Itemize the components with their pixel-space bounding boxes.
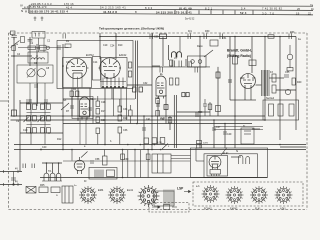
wire h y85 <box>127 84 152 86</box>
tube V2 EAF42 envelope <box>99 58 122 78</box>
wire h y99 mid <box>63 98 96 100</box>
svg-text:LSP: LSP <box>177 187 184 191</box>
junction dot left <box>13 184 15 186</box>
svg-text:7 41 30 81 82: 7 41 30 81 82 <box>262 7 283 11</box>
wire bottom long rail <box>40 177 267 179</box>
svg-text:5,4: 5,4 <box>241 7 246 11</box>
wire v x186 <box>185 59 187 66</box>
svg-text:Ratio: Ratio <box>197 45 203 48</box>
wire v loop risers <box>45 163 47 174</box>
output transformer hatch <box>163 190 165 206</box>
resistor C35 <box>129 110 133 116</box>
svg-text:4V: 4V <box>15 181 18 184</box>
svg-text:EAF42: EAF42 <box>230 208 238 211</box>
svg-text:R10: R10 <box>118 44 123 47</box>
hatched choke <box>94 170 96 178</box>
svg-text:8,2 1: 8,2 1 <box>205 6 213 10</box>
volume assembly box <box>89 168 117 180</box>
left edge tick <box>0 100 9 102</box>
svg-text:170 16: 170 16 <box>64 2 74 6</box>
svg-text:220V: 220V <box>203 143 209 145</box>
svg-text:FR5: FR5 <box>40 184 45 187</box>
svg-text:54 2 215 165 41: 54 2 215 165 41 <box>100 5 126 9</box>
output mid box <box>204 154 258 178</box>
hanging capacitors off rails <box>70 34 293 160</box>
resistor on rail mid <box>160 34 167 39</box>
svg-text:52 4: 52 4 <box>240 11 247 15</box>
wire v T2 top <box>115 33 117 59</box>
wire v T1 top <box>99 33 101 59</box>
svg-text:C14: C14 <box>93 61 98 64</box>
svg-text:54 215 200 170 16,5 41: 54 215 200 170 16,5 41 <box>156 11 192 15</box>
svg-text:Dr: Dr <box>84 180 87 183</box>
component on left antenna line <box>12 110 17 116</box>
wire v x158 mid <box>157 100 159 116</box>
tube V1 ECH42 envelope <box>66 58 88 78</box>
wire heater rail 2 <box>14 149 306 151</box>
wire h detector <box>269 77 284 79</box>
tube socket S4 <box>202 185 220 203</box>
wire v x37 <box>36 44 38 106</box>
svg-text:C19: C19 <box>103 44 108 47</box>
wire v x105 <box>104 88 106 145</box>
resistor R0 <box>21 37 25 43</box>
trimmer arrow <box>27 68 36 78</box>
fuse box 1 <box>39 187 48 193</box>
tube socket S5 <box>226 186 244 204</box>
svg-text:C30: C30 <box>101 119 106 122</box>
cap row c1 <box>171 61 173 67</box>
capacitor at x72 <box>70 105 74 107</box>
small box above V3 <box>249 60 256 66</box>
resistor Rc <box>128 62 132 68</box>
filter vertical c2 <box>44 99 46 145</box>
output tube box <box>207 156 228 177</box>
wire AVC bus <box>11 115 266 117</box>
PSU box <box>263 100 299 120</box>
switch box mid-bottom <box>152 154 171 173</box>
wires under V2 comb <box>113 88 115 117</box>
svg-text:C58: C58 <box>95 158 100 161</box>
wire drops from input box <box>38 38 40 52</box>
component comb under V2 <box>102 78 104 86</box>
wire h y129 right <box>252 128 260 130</box>
pot arrow f2 <box>38 117 43 122</box>
wire v x225 <box>224 124 226 149</box>
svg-text:R12: R12 <box>57 138 62 141</box>
svg-text:5a 41 52: 5a 41 52 <box>185 18 195 21</box>
frame bottom <box>9 209 308 211</box>
trimmer circle 1 <box>27 69 35 77</box>
filter cluster r1c2 <box>41 104 45 110</box>
capacitor block C62 <box>197 141 202 144</box>
mid cluster caps <box>203 103 207 105</box>
detector caps <box>284 74 289 76</box>
svg-text:C40: C40 <box>42 146 47 149</box>
caps above filter <box>26 99 28 104</box>
wire v x63 <box>62 44 64 150</box>
wire v x72 <box>71 88 73 116</box>
coil L5 bumps <box>172 52 182 58</box>
coil L1 loops <box>31 58 45 60</box>
heater drop wires <box>71 150 73 161</box>
tube socket S2 <box>108 186 126 204</box>
frame left <box>8 33 10 210</box>
svg-text:8 0,3: 8 0,3 <box>145 6 153 10</box>
svg-text:C41: C41 <box>146 118 151 121</box>
resistor on rail right <box>268 35 274 38</box>
table left bracket <box>28 5 30 13</box>
wire v x163 <box>162 37 164 67</box>
wire v x296 <box>295 37 297 131</box>
capacitor C5b <box>62 34 64 39</box>
svg-text:Brandt. GmbH.: Brandt. GmbH. <box>227 49 252 53</box>
components above heater rail <box>144 138 149 144</box>
tube V4 output EL41 envelope <box>209 156 221 169</box>
capacitor C1 <box>11 35 17 37</box>
antenna input box <box>32 32 45 39</box>
wire top rail <box>100 36 296 38</box>
capacitor at x170 <box>168 118 172 124</box>
wire h tube V3 left <box>252 77 256 79</box>
wire v x218 <box>217 67 219 116</box>
switch box with X <box>26 187 36 194</box>
registration marks under table <box>34 17 44 22</box>
svg-text:Teilspannungen gemessen.: Teilspannungen gemessen. <box>99 26 141 30</box>
wire h y103 left <box>20 102 63 104</box>
trimmer circle 2 <box>37 69 45 77</box>
svg-text:C47: C47 <box>216 126 221 129</box>
svg-text:ECH42: ECH42 <box>204 208 212 211</box>
cap row c3 <box>194 67 196 73</box>
svg-text:C12: C12 <box>66 61 71 64</box>
svg-text:C32: C32 <box>143 82 148 85</box>
wire v x166 <box>165 95 167 124</box>
capacitor at x158 <box>156 103 160 105</box>
resistor heater drop 2 <box>146 154 150 160</box>
svg-text:41-54 2 8: 41-54 2 8 <box>103 10 117 14</box>
right edge small circle <box>285 89 290 94</box>
svg-text:C34: C34 <box>123 108 128 111</box>
filter cluster r2c2 <box>41 116 45 122</box>
transformer side winding <box>272 74 276 82</box>
svg-text:R26: R26 <box>161 117 166 120</box>
wire v x230 <box>229 37 231 101</box>
capacitor C32b <box>139 87 143 92</box>
frame right <box>306 33 308 210</box>
tube V3 demodulator envelope <box>240 74 256 100</box>
wire h y66 stub <box>152 65 160 67</box>
resistor stack right of V7 <box>170 60 173 66</box>
svg-text:Dr1: Dr1 <box>188 30 193 33</box>
wire drop x37b <box>37 83 39 104</box>
antenna terminal small box <box>10 31 15 35</box>
coil L1 box <box>28 52 48 63</box>
lamp arcs <box>239 155 243 164</box>
resistor near V5 right <box>103 156 108 165</box>
wire diagonal into box <box>221 148 227 156</box>
output outer box <box>191 148 268 178</box>
svg-text:R20: R20 <box>123 117 128 120</box>
wire right rail link <box>280 146 306 148</box>
ratio box <box>188 56 207 67</box>
top rail cluster right <box>219 34 221 40</box>
svg-text:C52: C52 <box>155 97 160 100</box>
wire v x265 <box>264 37 266 121</box>
capacitor at x90 <box>88 107 92 109</box>
wire v x235 <box>234 37 236 149</box>
small dashed box bottom centre <box>149 203 189 213</box>
wire v x78 <box>77 88 79 120</box>
svg-text:R30: R30 <box>205 30 210 33</box>
shield box V1 <box>63 58 92 88</box>
wire drop x30 lower <box>29 83 31 104</box>
pot arrow left <box>11 41 20 48</box>
wire h y100 V3 <box>230 99 240 101</box>
output-stage box inner <box>241 128 254 144</box>
tick marks left stubs <box>3 170 5 173</box>
wire h tube V3 right <box>256 84 262 86</box>
resistor R1 <box>65 44 71 47</box>
svg-text:C49: C49 <box>227 133 232 136</box>
wire v x170 mid <box>169 116 171 130</box>
wire v x30 <box>29 37 31 66</box>
svg-text:R28: R28 <box>198 111 203 114</box>
svg-text:R33: R33 <box>290 31 295 34</box>
svg-text:215 85 7,2 6,3: 215 85 7,2 6,3 <box>31 2 52 6</box>
pot arrow near V5 <box>81 152 88 158</box>
resistor x218 <box>216 72 220 78</box>
wire h y133 left <box>20 132 63 134</box>
wire h y157 output <box>231 156 241 158</box>
pot arrow f1 <box>24 117 29 122</box>
tube V7 pentode (vertical style) <box>156 76 166 99</box>
wire v x214 <box>213 120 215 148</box>
filter cluster r1c1 <box>27 104 31 110</box>
top rail cluster caps <box>187 34 189 40</box>
table rule 1 <box>29 5 313 6</box>
small rect pair x182 <box>182 93 185 97</box>
wire left column <box>19 100 21 172</box>
svg-text:EL41: EL41 <box>255 208 261 211</box>
wire h y112 <box>177 111 210 113</box>
dashed socket box <box>193 182 303 206</box>
tube V4 base box <box>210 170 221 175</box>
cap near V5 <box>90 160 94 162</box>
connector element <box>62 186 73 203</box>
capacitor on mains lead <box>11 177 16 179</box>
svg-text:R17: R17 <box>101 110 106 113</box>
wire under coil <box>138 66 210 68</box>
svg-text:C10: C10 <box>23 129 28 132</box>
wire v x280 <box>279 37 281 141</box>
svg-text:AZ41: AZ41 <box>280 208 286 211</box>
svg-text:AA: AA <box>63 99 67 102</box>
svg-text:C36: C36 <box>123 129 128 132</box>
filter row links <box>27 112 51 114</box>
svg-text:C55: C55 <box>285 71 290 74</box>
svg-text:N: N <box>21 9 23 13</box>
tube V6 pentode (vertical style) <box>72 97 93 145</box>
resistor Rd <box>128 71 132 77</box>
cap row c4 <box>159 67 161 73</box>
wire pair to output <box>173 95 175 148</box>
svg-text:4V: 4V <box>15 168 18 171</box>
tube socket S7 <box>275 186 293 204</box>
wire v x200 <box>199 37 201 149</box>
capacitor C59 <box>149 34 151 40</box>
wire v x137 pair <box>135 41 137 100</box>
socket S3 box <box>154 191 174 206</box>
tube V5 small indicator envelope <box>74 157 85 174</box>
filter cluster r2c1 <box>27 116 31 122</box>
mains coil loops <box>44 173 61 181</box>
svg-text:C16: C16 <box>104 77 109 80</box>
svg-text:C59: C59 <box>154 36 159 39</box>
caps on wire left <box>22 164 24 169</box>
small box top right <box>210 40 218 46</box>
IF transformer core hatch <box>261 70 263 96</box>
wire v x112 <box>111 88 113 99</box>
wire across stacks <box>96 98 135 100</box>
wire left stub upper <box>0 171 22 173</box>
wire h y90 right <box>276 89 296 91</box>
cap row c2 <box>188 61 190 67</box>
svg-text:V 205 85-58 170 16-41 215 4: V 205 85-58 170 16-41 215 4 <box>25 10 68 14</box>
wire left stub lower <box>0 184 22 186</box>
filter cluster r3c1 <box>27 128 31 134</box>
component on grid line a <box>28 46 36 50</box>
wire antenna lead top <box>12 35 14 36</box>
grid wire long <box>18 47 69 49</box>
svg-text:Tr: Tr <box>243 125 245 128</box>
wire into output box <box>195 148 197 161</box>
shield box V2 <box>101 58 127 88</box>
capacitor C5 <box>57 45 59 50</box>
svg-text:C60: C60 <box>124 158 129 161</box>
capacitor x230 <box>228 79 232 81</box>
svg-text:EAF42: EAF42 <box>119 54 127 57</box>
ratio arrow <box>204 50 213 57</box>
svg-text:EAF: EAF <box>240 77 245 80</box>
svg-text:41 4: 41 4 <box>66 5 72 9</box>
capacitor at x225 <box>223 131 227 133</box>
fuse box 2 <box>51 187 60 193</box>
svg-text:6,3V: 6,3V <box>157 142 162 145</box>
svg-text:ECH42: ECH42 <box>86 54 94 57</box>
wire loop base <box>42 180 62 182</box>
capacitor C2 <box>28 39 33 41</box>
svg-text:R40: R40 <box>297 81 302 84</box>
table column ticks <box>175 10 253 15</box>
caps under trimmers <box>34 84 38 86</box>
svg-text:EL41: EL41 <box>223 152 229 155</box>
capacitor at x214 <box>212 127 216 129</box>
base pins <box>211 174 213 176</box>
wire v x252 <box>251 37 253 74</box>
svg-text:19: 19 <box>296 12 300 16</box>
wire antenna lead <box>13 37 15 116</box>
svg-text:(Stellung UKW): (Stellung UKW) <box>141 26 164 30</box>
svg-text:C51: C51 <box>222 37 227 40</box>
resistor Rb <box>76 91 79 97</box>
resistor stack B <box>118 106 122 112</box>
svg-text:C28: C28 <box>101 101 106 104</box>
wire x13.5 drop <box>13 172 15 185</box>
svg-text:a 205 85 56-170: a 205 85 56-170 <box>24 5 47 9</box>
tube socket S1 <box>79 186 97 204</box>
capacitor at x144 <box>142 127 146 129</box>
capacitor C32a <box>133 87 137 92</box>
svg-text:30 70: 30 70 <box>262 11 275 15</box>
filter vertical c1 <box>30 99 32 145</box>
wire bus 2 <box>11 119 266 121</box>
frame top <box>9 32 308 34</box>
resistor Ra <box>70 91 73 97</box>
svg-text:Netzteil: Netzteil <box>266 97 274 100</box>
table rule 3 <box>29 13 313 15</box>
wire v x144 <box>143 116 145 150</box>
svg-text:EL41: EL41 <box>127 188 134 192</box>
outer tuner enclosure <box>57 41 133 89</box>
wires to output box <box>171 155 191 157</box>
wire bus 3 <box>63 123 252 125</box>
wire heater rail 1 <box>14 144 306 146</box>
right edge circle component <box>287 54 293 60</box>
wire drop x45 <box>44 83 46 99</box>
wire v x152 <box>151 33 153 150</box>
resistor heater drop 1 <box>121 154 125 160</box>
volume pot arrow <box>61 103 69 110</box>
svg-text:1M: 1M <box>15 44 18 46</box>
svg-text:C24: C24 <box>110 45 115 48</box>
wire v x90 <box>89 88 91 116</box>
svg-text:(Stilling Radio): (Stilling Radio) <box>227 54 251 58</box>
svg-text:EM4: EM4 <box>98 188 104 192</box>
filter cluster r3c2 <box>41 128 45 134</box>
tube socket S6 <box>250 186 268 204</box>
resistor R2 <box>12 46 16 51</box>
IF can between tubes <box>93 57 101 81</box>
component on grid line b <box>40 45 47 50</box>
tube socket S3 <box>138 185 160 207</box>
front-end coil box <box>17 65 53 83</box>
tube V1 pins <box>72 77 74 88</box>
resistor stack A <box>96 101 100 107</box>
svg-text:26: 26 <box>297 7 300 11</box>
table rule 2 <box>22 9 313 11</box>
wire h y56 left <box>11 55 32 57</box>
